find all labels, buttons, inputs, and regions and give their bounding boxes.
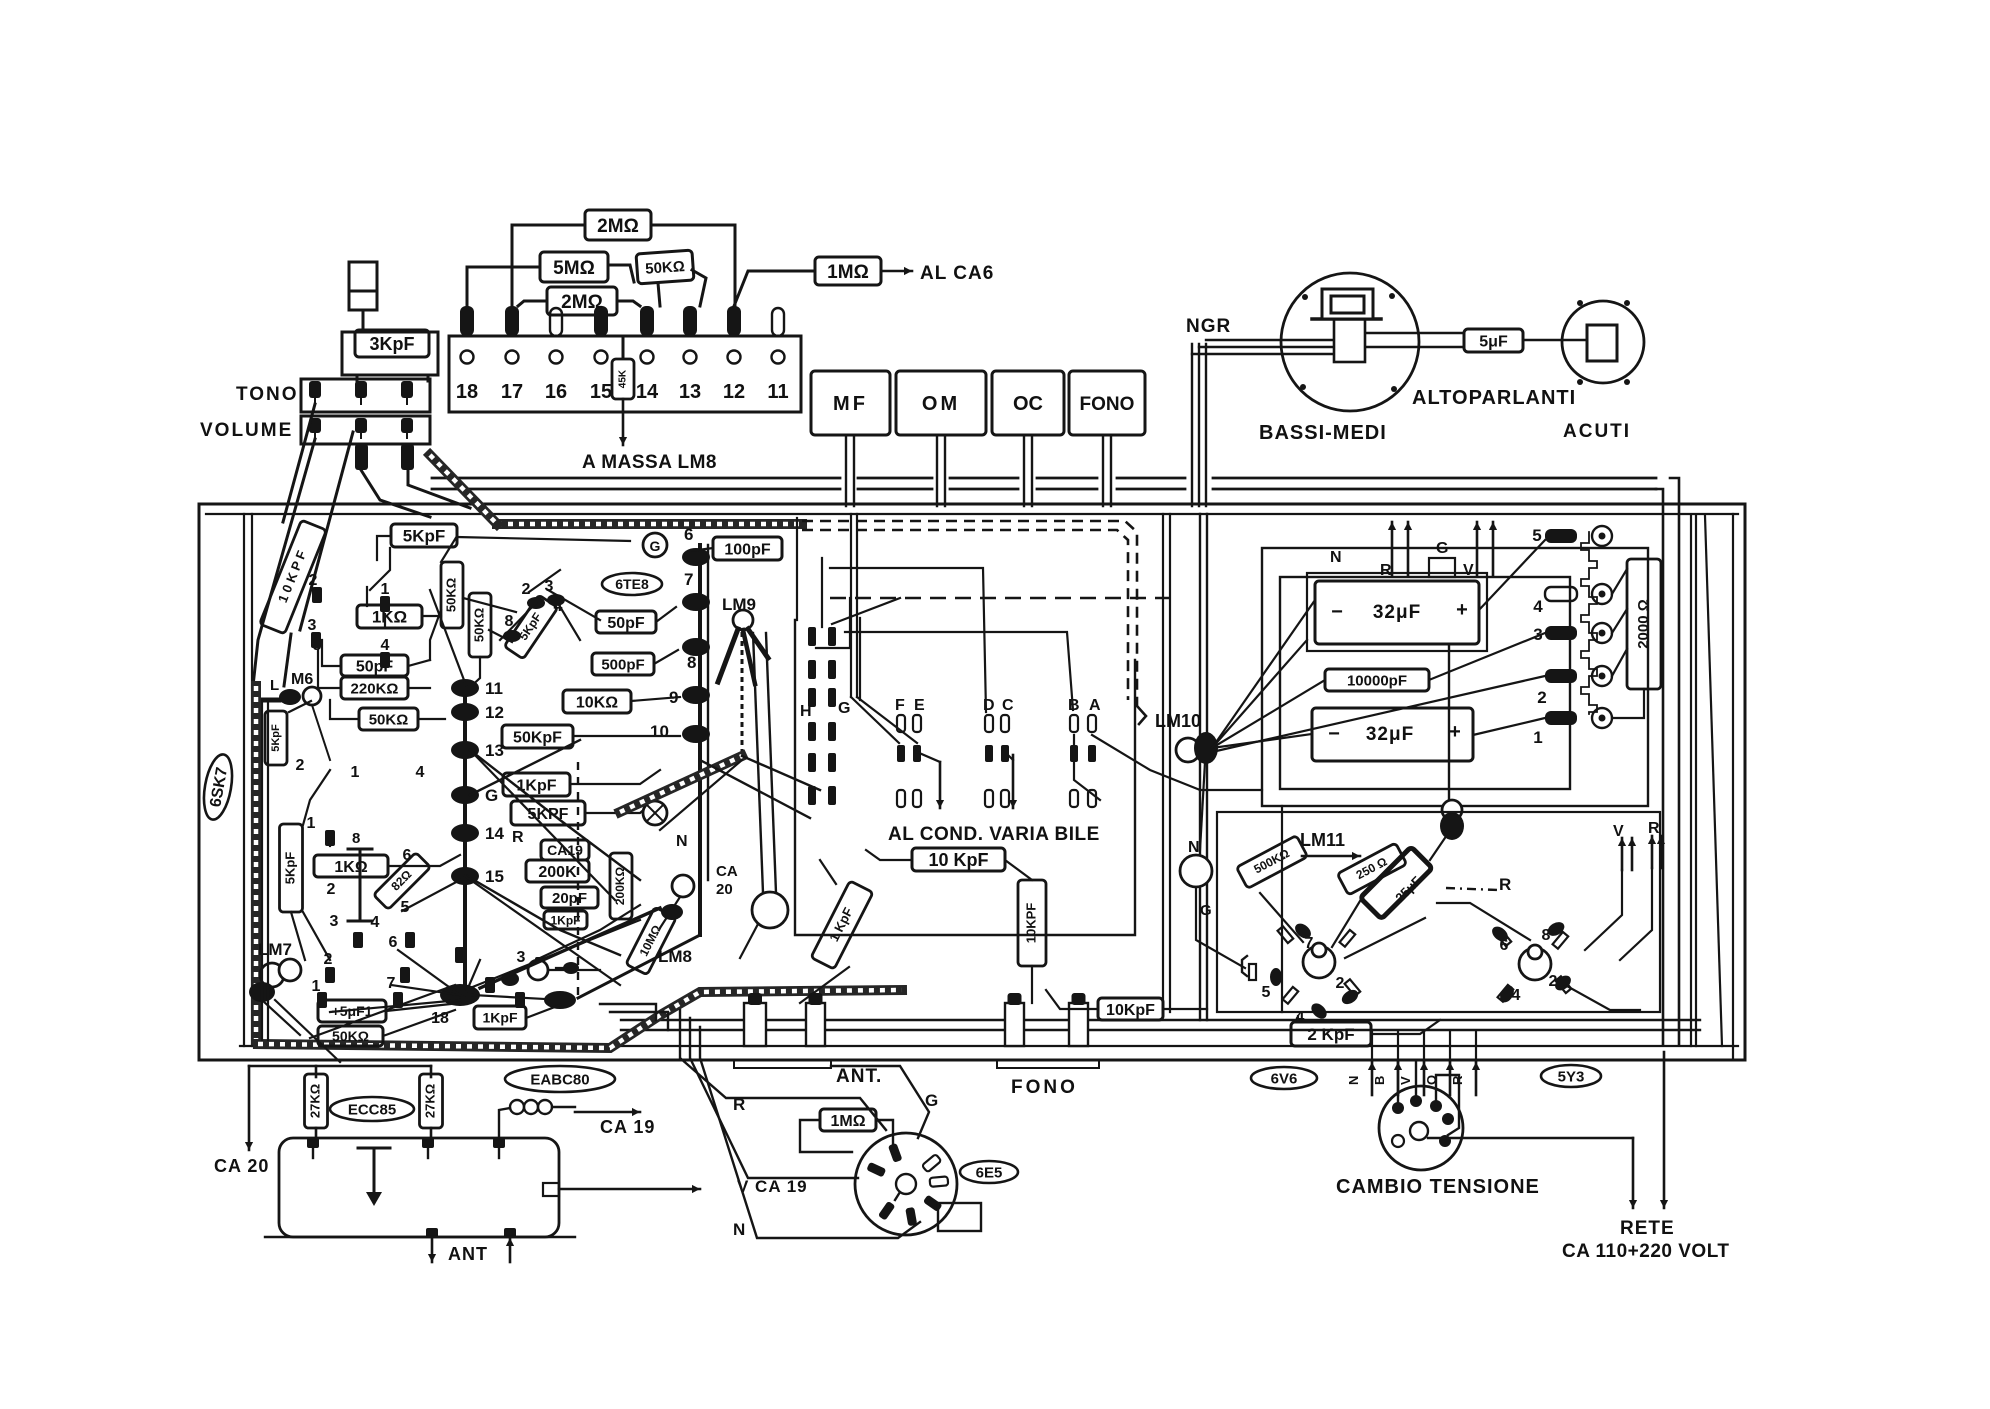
svg-text:32μF: 32μF	[1366, 724, 1414, 745]
svg-text:2 KpF: 2 KpF	[1307, 1025, 1354, 1044]
svg-text:45K: 45K	[618, 369, 629, 388]
svg-text:G: G	[838, 700, 850, 717]
svg-text:LM10: LM10	[1155, 711, 1201, 731]
svg-text:2: 2	[522, 581, 531, 598]
svg-text:50KΩ: 50KΩ	[443, 578, 458, 612]
svg-text:1KpF: 1KpF	[483, 1010, 518, 1026]
svg-text:ECC85: ECC85	[348, 1101, 396, 1118]
svg-text:2: 2	[1336, 975, 1345, 992]
svg-text:500pF: 500pF	[601, 656, 644, 673]
svg-text:5KpF: 5KpF	[282, 852, 297, 885]
svg-text:ACUTI: ACUTI	[1563, 421, 1631, 442]
svg-text:N: N	[1188, 839, 1200, 856]
svg-text:NGR: NGR	[1186, 316, 1231, 337]
svg-text:14: 14	[636, 381, 659, 403]
svg-text:5Y3: 5Y3	[1558, 1068, 1585, 1085]
svg-text:A MASSA LM8: A MASSA LM8	[582, 452, 717, 473]
svg-text:5KPF: 5KPF	[528, 806, 569, 823]
svg-text:AL COND. VARIA BILE: AL COND. VARIA BILE	[888, 824, 1100, 845]
svg-text:14: 14	[485, 824, 504, 843]
svg-text:C: C	[1002, 697, 1014, 714]
svg-text:A: A	[1089, 697, 1101, 714]
svg-text:6TE8: 6TE8	[615, 576, 649, 592]
svg-text:20: 20	[716, 881, 733, 898]
svg-text:5KpF: 5KpF	[270, 724, 282, 752]
svg-text:16: 16	[545, 381, 567, 403]
svg-text:2000 Ω: 2000 Ω	[1635, 599, 1652, 649]
svg-text:50KΩ: 50KΩ	[471, 608, 486, 642]
svg-text:11: 11	[485, 679, 503, 698]
svg-text:B: B	[1372, 1076, 1387, 1085]
svg-text:−: −	[1331, 601, 1343, 623]
svg-text:RETE: RETE	[1620, 1218, 1675, 1239]
svg-text:V: V	[1463, 562, 1474, 579]
svg-text:13: 13	[679, 381, 701, 403]
svg-text:10: 10	[650, 722, 669, 741]
svg-text:50KΩ: 50KΩ	[369, 711, 409, 728]
svg-text:1: 1	[307, 815, 316, 832]
svg-text:G: G	[1200, 902, 1212, 919]
svg-text:E: E	[914, 697, 925, 714]
svg-text:2: 2	[309, 572, 318, 589]
svg-text:MF: MF	[833, 393, 868, 415]
svg-text:LM8: LM8	[658, 947, 692, 966]
svg-text:13: 13	[485, 741, 504, 760]
svg-text:+: +	[1449, 721, 1461, 743]
svg-text:5μF: 5μF	[1479, 333, 1508, 350]
svg-text:18: 18	[456, 381, 478, 403]
svg-text:10KΩ: 10KΩ	[576, 694, 618, 711]
svg-text:200K: 200K	[538, 864, 577, 881]
svg-text:7: 7	[684, 570, 693, 589]
svg-text:1MΩ: 1MΩ	[830, 1113, 865, 1130]
svg-text:6: 6	[389, 934, 398, 951]
svg-text:FONO: FONO	[1011, 1077, 1078, 1098]
svg-text:3: 3	[545, 578, 554, 595]
svg-text:N: N	[1346, 1076, 1361, 1085]
svg-text:50KΩ: 50KΩ	[332, 1028, 369, 1044]
svg-text:2: 2	[324, 951, 333, 968]
svg-text:2: 2	[327, 881, 336, 898]
svg-text:3KpF: 3KpF	[370, 334, 415, 354]
svg-text:V CA 19: V CA 19	[737, 1177, 808, 1196]
svg-text:5: 5	[1262, 984, 1271, 1001]
svg-text:OC: OC	[1013, 393, 1043, 415]
svg-text:27KΩ: 27KΩ	[422, 1084, 437, 1118]
svg-text:50KpF: 50KpF	[513, 729, 562, 746]
svg-text:LM11: LM11	[1300, 830, 1345, 850]
svg-text:B: B	[1068, 697, 1080, 714]
svg-text:32μF: 32μF	[1373, 602, 1421, 623]
svg-text:15: 15	[590, 381, 612, 403]
svg-text:6: 6	[403, 847, 412, 864]
svg-text:5MΩ: 5MΩ	[553, 258, 595, 279]
svg-text:10KPF: 10KPF	[1023, 903, 1038, 944]
svg-text:27KΩ: 27KΩ	[307, 1084, 322, 1118]
svg-text:ANT.: ANT.	[836, 1066, 882, 1087]
svg-text:20pF: 20pF	[552, 890, 587, 907]
svg-text:FONO: FONO	[1080, 394, 1135, 415]
svg-text:4: 4	[1533, 597, 1543, 616]
svg-text:1: 1	[381, 581, 390, 598]
svg-text:R: R	[512, 829, 524, 846]
svg-text:10KpF: 10KpF	[1106, 1002, 1155, 1019]
svg-text:1KΩ: 1KΩ	[334, 859, 367, 876]
svg-text:15: 15	[485, 867, 504, 886]
svg-text:CA 110+220 VOLT: CA 110+220 VOLT	[1562, 1241, 1730, 1262]
svg-text:12: 12	[485, 703, 504, 722]
svg-text:220KΩ: 220KΩ	[351, 680, 399, 697]
svg-text:11: 11	[767, 381, 788, 403]
svg-text:6E5: 6E5	[976, 1164, 1003, 1181]
svg-text:2MΩ: 2MΩ	[597, 216, 639, 237]
svg-text:3: 3	[308, 617, 317, 634]
svg-text:+: +	[1456, 599, 1468, 621]
svg-text:10 KpF: 10 KpF	[928, 850, 988, 870]
svg-text:6: 6	[684, 525, 693, 544]
svg-text:AL CA6: AL CA6	[920, 263, 994, 284]
svg-text:4: 4	[371, 914, 380, 931]
svg-text:O: O	[1424, 1075, 1439, 1085]
svg-text:2: 2	[296, 757, 305, 774]
svg-text:1KpF: 1KpF	[551, 913, 581, 927]
svg-text:−: −	[1328, 723, 1340, 745]
svg-text:7: 7	[387, 975, 396, 992]
svg-text:G: G	[485, 786, 498, 805]
svg-text:V: V	[1398, 1076, 1413, 1085]
svg-text:H: H	[800, 703, 812, 720]
svg-text:4: 4	[381, 637, 390, 654]
svg-text:2: 2	[1537, 688, 1546, 707]
svg-text:5KpF: 5KpF	[403, 527, 446, 546]
svg-text:ALTOPARLANTI: ALTOPARLANTI	[1412, 387, 1576, 409]
svg-text:CA 19: CA 19	[600, 1117, 655, 1137]
svg-text:CA: CA	[716, 863, 738, 880]
svg-text:TONO: TONO	[236, 384, 299, 405]
svg-text:M6: M6	[291, 671, 313, 688]
svg-text:R: R	[1380, 562, 1392, 579]
svg-text:R: R	[1499, 875, 1511, 894]
svg-text:OM: OM	[922, 393, 960, 415]
svg-text:6V6: 6V6	[1271, 1070, 1298, 1087]
svg-text:4: 4	[416, 764, 425, 781]
svg-text:3: 3	[517, 949, 526, 966]
svg-text:1: 1	[1533, 728, 1542, 747]
svg-text:1: 1	[351, 764, 360, 781]
svg-text:ANT: ANT	[448, 1244, 488, 1264]
svg-text:G: G	[1436, 540, 1448, 557]
svg-text:8: 8	[687, 653, 696, 672]
svg-text:3: 3	[330, 913, 339, 930]
svg-text:F: F	[895, 697, 905, 714]
svg-text:5: 5	[1532, 526, 1541, 545]
svg-text:L: L	[270, 677, 279, 694]
svg-text:100pF: 100pF	[724, 541, 770, 558]
svg-text:12: 12	[723, 381, 745, 403]
svg-text:BASSI-MEDI: BASSI-MEDI	[1259, 422, 1387, 444]
svg-text:17: 17	[501, 381, 523, 403]
svg-text:N: N	[733, 1220, 745, 1239]
svg-text:G: G	[650, 538, 661, 554]
svg-text:R: R	[1450, 1075, 1465, 1085]
svg-text:1MΩ: 1MΩ	[827, 262, 869, 283]
svg-text:CAMBIO TENSIONE: CAMBIO TENSIONE	[1336, 1176, 1540, 1198]
svg-text:EABC80: EABC80	[530, 1071, 589, 1088]
svg-text:CA 20: CA 20	[214, 1156, 269, 1176]
svg-text:R: R	[1648, 820, 1660, 837]
svg-text:2MΩ: 2MΩ	[561, 292, 603, 313]
svg-text:N: N	[676, 833, 688, 850]
svg-text:10000pF: 10000pF	[1347, 672, 1407, 689]
svg-text:50pF: 50pF	[607, 615, 645, 632]
svg-text:50KΩ: 50KΩ	[645, 258, 686, 278]
svg-text:8: 8	[352, 830, 360, 847]
svg-text:N: N	[1330, 549, 1342, 566]
svg-text:VOLUME: VOLUME	[200, 420, 293, 441]
